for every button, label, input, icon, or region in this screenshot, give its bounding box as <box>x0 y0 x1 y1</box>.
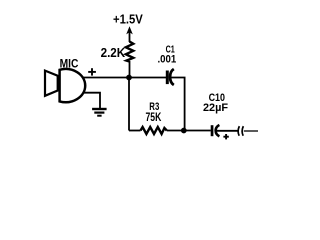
wire R3 to node B to C10 <box>167 130 211 132</box>
capacitor C1 <box>166 69 174 85</box>
svg-text:22µF: 22µF <box>203 102 228 114</box>
svg-text:75K: 75K <box>146 112 162 124</box>
wire mic+ to node A to C1 <box>83 77 166 79</box>
microphone MIC (capsule D body) <box>60 69 86 102</box>
resistor R3 (horizontal zigzag) <box>141 127 167 134</box>
wire-break marks <box>238 126 243 136</box>
wire resistor bottom to node A <box>129 61 131 78</box>
microphone MIC (cone trapezoid) <box>45 71 58 96</box>
wire bottom rail left <box>129 130 141 132</box>
power arrow <box>126 26 133 42</box>
wire node A down to bottom rail <box>128 78 130 131</box>
wire mic ground lead <box>84 93 100 108</box>
svg-text:2.2K: 2.2K <box>101 46 126 60</box>
ground <box>92 109 107 116</box>
C10 plus sign <box>223 134 228 139</box>
node A junction dot <box>126 75 132 81</box>
node B junction dot <box>181 128 187 134</box>
wire C1 to top-right corner and down <box>171 78 185 131</box>
mic plus sign <box>88 68 96 75</box>
wire C10 to break <box>217 130 238 132</box>
svg-text:+1.5V: +1.5V <box>113 12 143 27</box>
wire output stub <box>244 130 258 132</box>
resistor 2.2K (vertical zigzag) <box>126 42 134 62</box>
svg-text:.001: .001 <box>158 54 177 66</box>
capacitor C10 <box>211 125 220 136</box>
